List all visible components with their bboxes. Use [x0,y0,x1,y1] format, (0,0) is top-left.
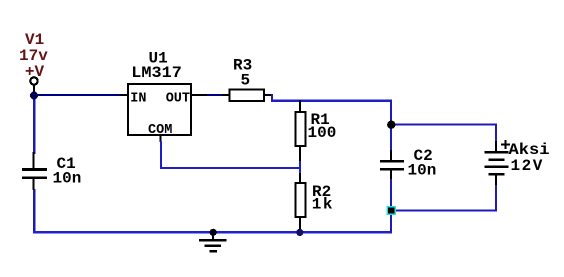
svg-text:IN: IN [130,92,146,107]
svg-text:OUT: OUT [166,92,190,107]
svg-text:12V: 12V [511,157,544,175]
svg-text:COM: COM [148,123,172,138]
svg-text:10n: 10n [53,170,82,188]
svg-text:5: 5 [241,72,251,90]
svg-text:+V: +V [25,63,45,81]
svg-text:1k: 1k [312,196,334,214]
svg-text:100: 100 [308,124,337,142]
svg-text:LM317: LM317 [131,64,182,82]
svg-text:10n: 10n [408,162,437,180]
